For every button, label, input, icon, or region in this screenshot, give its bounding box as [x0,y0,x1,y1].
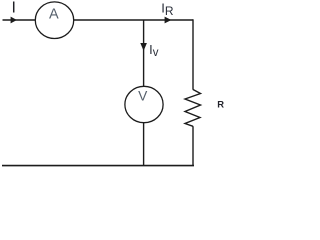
svg-text:v: v [153,47,159,59]
wire voltmeter bottom lead [143,122,145,166]
wire resistor bottom lead [192,126,194,165]
arrow current Iv (pointing down) [140,43,147,51]
ammeter A1 [35,2,73,39]
wire right vertical (corner to resistor) [192,19,194,89]
wire top horizontal [3,19,194,21]
svg-text:V: V [138,88,148,103]
voltmeter V1 [125,86,163,122]
resistor R [185,90,201,127]
arrow current IR (pointing right) [165,17,172,24]
svg-text:I: I [11,0,15,16]
svg-text:R: R [217,99,224,110]
wire bottom horizontal [2,165,194,167]
svg-text:A: A [49,6,59,22]
wire middle vertical (junction to voltmeter) [143,20,145,87]
arrow current I (left, pointing right) [11,17,17,24]
svg-text:R: R [165,4,174,18]
